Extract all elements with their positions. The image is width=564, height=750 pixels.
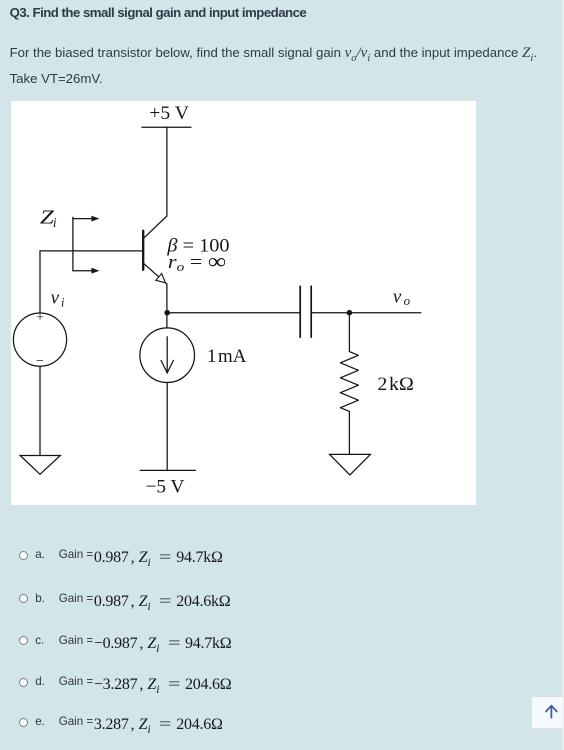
capacitor C1 right plate — [310, 286, 312, 337]
current source I1 circle — [140, 328, 195, 383]
+5V supply bar — [142, 126, 191, 128]
svg-text:2 kΩ: 2 kΩ — [377, 374, 413, 395]
source V1 vi circle — [13, 313, 66, 366]
wire vi to ground — [39, 366, 41, 455]
option c — [19, 636, 28, 645]
ground symbol left — [20, 456, 60, 475]
wire capacitor to output — [311, 312, 421, 314]
Zi measure bracket — [72, 217, 74, 270]
wire collector slant — [144, 216, 167, 238]
svg-text:−5 V: −5 V — [146, 476, 185, 497]
right scrollbar strip — [562, 0, 564, 750]
node dot emitter — [164, 310, 170, 316]
transistor Q1 emitter arrow — [156, 274, 166, 283]
svg-text:vi: vi — [51, 288, 65, 310]
option b — [19, 594, 28, 603]
wire output node down to resistor — [348, 313, 350, 352]
ground symbol right — [330, 454, 371, 475]
wire base — [40, 250, 143, 252]
svg-text:Zi: Zi — [40, 206, 57, 230]
question body text — [10, 43, 562, 89]
transistor Q1 base bar — [142, 231, 144, 270]
transistor Q1 emitter slant — [144, 264, 167, 284]
capacitor C1 left plate — [299, 286, 301, 337]
current source I1 arrow — [166, 337, 168, 373]
svg-text:vo: vo — [393, 286, 411, 308]
wire resistor to ground — [348, 411, 350, 454]
svg-text:−: − — [36, 354, 44, 369]
option a — [19, 551, 28, 560]
svg-text:+5 V: +5 V — [149, 103, 189, 124]
back to top button — [532, 697, 563, 728]
circuit figure (white panel) — [11, 101, 476, 505]
wire emitter node to capacitor — [167, 312, 300, 314]
-5V supply bar — [140, 469, 195, 471]
wire emitter vertical — [166, 284, 168, 328]
wire current source to -5V — [166, 383, 168, 471]
svg-text:1 mA: 1 mA — [207, 346, 247, 367]
svg-text:+: + — [36, 309, 43, 324]
wire vi to base — [39, 251, 41, 313]
resistor R1 2k zigzag — [340, 352, 358, 412]
node dot output — [347, 310, 353, 316]
option d — [19, 678, 28, 687]
question title — [10, 5, 307, 21]
wire collector vertical — [166, 127, 168, 216]
option e — [19, 718, 28, 727]
